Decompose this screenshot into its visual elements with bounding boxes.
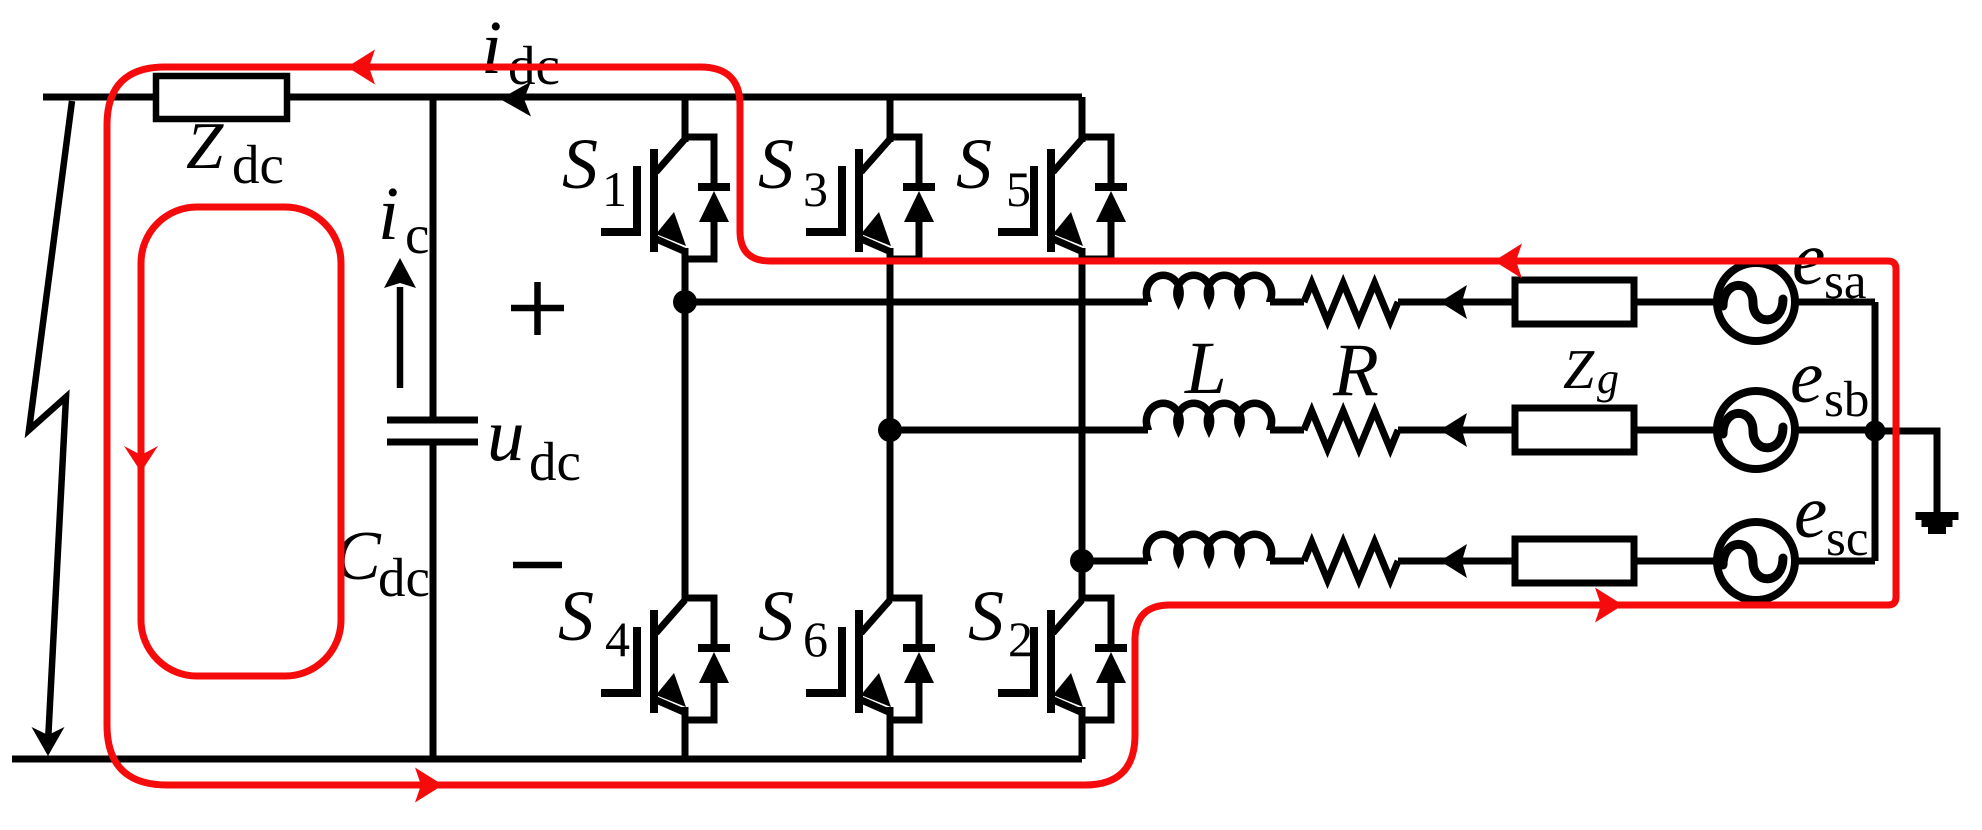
resistor Zg phase b: [1515, 408, 1634, 452]
wire neutral to ground: [1875, 431, 1937, 514]
diode D6 (antiparallel of S6): [890, 598, 935, 720]
arrow red top (i_dc direction): [347, 50, 375, 85]
label u_dc: [487, 394, 581, 492]
label S2: [968, 576, 1033, 667]
svg-text:dc: dc: [378, 547, 430, 608]
wire phase c: [1082, 558, 1875, 565]
svg-text:dc: dc: [529, 431, 581, 492]
transistor S2: [998, 600, 1083, 713]
label e_sa: [1792, 218, 1866, 310]
svg-text:S: S: [758, 576, 794, 656]
transistor S5: [998, 139, 1083, 252]
wire bottom dc bus: [12, 756, 1082, 763]
inductor L phase a: [1146, 275, 1271, 302]
svg-text:R: R: [1332, 329, 1379, 412]
diode D2 (antiparallel of S2): [1082, 598, 1127, 720]
source e_sa: [1717, 263, 1795, 341]
svg-text:S: S: [562, 124, 598, 204]
resistor Zg phase c: [1515, 539, 1634, 583]
transistor S3: [806, 139, 891, 252]
arrow i_dc on top bus: [500, 82, 531, 117]
svg-text:i: i: [378, 172, 399, 256]
transistor S6: [806, 600, 891, 713]
label S5: [956, 124, 1031, 217]
svg-text:L: L: [1184, 327, 1227, 410]
arrow current phase a: [1440, 285, 1467, 319]
diode D5 (antiparallel of S5): [1082, 137, 1127, 259]
resistor R phase a: [1304, 283, 1398, 321]
wire top dc bus: [43, 94, 1082, 101]
svg-text:e: e: [1790, 336, 1823, 419]
wire right collector vertical: [1872, 302, 1879, 561]
label i_dc: [481, 6, 560, 96]
source e_sb: [1717, 391, 1795, 469]
svg-text:u: u: [487, 394, 525, 477]
svg-text:Z: Z: [1563, 339, 1595, 401]
svg-text:S: S: [956, 124, 992, 204]
transistor S4: [601, 600, 686, 713]
arrow current phase b: [1440, 413, 1467, 447]
wire phase b: [890, 427, 1875, 434]
node B: [878, 418, 902, 442]
label S4: [558, 576, 630, 667]
label Zg: [1563, 339, 1619, 403]
plus sign: [511, 282, 564, 335]
arrow red lower-right pointing right: [1595, 588, 1623, 623]
label e_sb: [1790, 336, 1869, 428]
label e_sc: [1794, 471, 1868, 567]
minus sign: [513, 562, 562, 569]
resistor R phase b: [1304, 411, 1398, 449]
wire red inner capacitor loop: [141, 207, 341, 676]
diode D3 (antiparallel of S3): [890, 137, 935, 259]
svg-text:c: c: [405, 204, 429, 265]
arrow red inner loop pointing down: [124, 446, 158, 472]
wire leg A vertical: [682, 97, 689, 142]
wire phase a: [685, 299, 1875, 306]
svg-text:3: 3: [803, 161, 828, 217]
arrow red bottom pointing right: [415, 768, 443, 803]
arrow current phase c: [1440, 544, 1467, 578]
resistor Zdc: [156, 76, 287, 119]
svg-text:5: 5: [1006, 161, 1031, 217]
svg-text:sb: sb: [1824, 372, 1869, 428]
svg-text:4: 4: [605, 611, 630, 667]
svg-text:Z: Z: [186, 109, 224, 183]
inductor L phase b: [1146, 403, 1271, 430]
diode D4 (antiparallel of S4): [685, 598, 730, 720]
label Cdc: [334, 518, 430, 608]
svg-text:2: 2: [1008, 611, 1033, 667]
svg-text:6: 6: [803, 611, 828, 667]
resistor R phase c: [1304, 542, 1398, 580]
label S3: [758, 124, 828, 217]
svg-text:e: e: [1794, 471, 1827, 554]
capacitor Cdc: [387, 97, 478, 759]
arrow i_c: [384, 258, 416, 388]
svg-text:S: S: [558, 576, 594, 656]
node C: [1070, 549, 1094, 573]
source e_sc: [1717, 522, 1795, 600]
label S6: [758, 576, 828, 667]
transistor S1: [601, 139, 686, 252]
resistor Zg phase a: [1515, 280, 1634, 324]
svg-text:g: g: [1597, 354, 1619, 403]
label S1: [562, 124, 627, 217]
node A: [673, 290, 697, 314]
node neutral: [1865, 421, 1886, 442]
diode D1 (antiparallel of S1): [685, 137, 730, 259]
wire leg B vertical: [887, 97, 894, 142]
ground: [1916, 512, 1959, 534]
svg-text:S: S: [758, 124, 794, 204]
label Zdc: [186, 109, 284, 195]
arrow red mid-right pointing left: [1494, 244, 1522, 279]
svg-text:i: i: [481, 6, 502, 90]
inductor L phase c: [1146, 534, 1271, 561]
label i_c: [378, 172, 429, 265]
lightning fault arrow at left: [29, 101, 72, 756]
svg-text:dc: dc: [232, 134, 284, 195]
wire red outer commutation loop: [107, 67, 1896, 785]
wire leg C vertical: [1079, 97, 1086, 142]
svg-text:sc: sc: [1826, 511, 1868, 567]
svg-text:1: 1: [602, 161, 627, 217]
svg-text:S: S: [968, 576, 1004, 656]
